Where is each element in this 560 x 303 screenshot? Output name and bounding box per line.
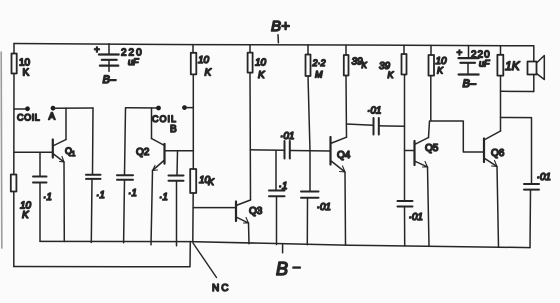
svg-text:K: K: [22, 210, 30, 221]
wire Q4 collector to C9: [347, 124, 374, 125]
wire Q3 emitter down: [248, 223, 251, 244]
svg-text:K: K: [388, 70, 395, 80]
wire Q6 emitter down: [497, 167, 499, 248]
svg-text:K: K: [205, 68, 213, 79]
wire Q1 collector riser: [65, 108, 67, 140]
svg-text:Q3: Q3: [249, 206, 263, 217]
transistor Q4: [331, 137, 351, 172]
svg-text:1K: 1K: [505, 59, 521, 73]
wire cap C5 drop: [176, 151, 179, 176]
capacitor C5 .1: [159, 176, 184, 246]
resistor R3 10K (on Q3 base line, top): [191, 45, 213, 79]
wire coil B dot2 stub: [185, 107, 194, 109]
svg-text:10: 10: [198, 55, 210, 66]
capacitor C1 .1: [33, 177, 52, 242]
wire Q5 base line vertical: [404, 75, 406, 201]
wire COIL B left branch: [125, 108, 159, 175]
svg-text:K: K: [23, 68, 30, 79]
capacitor C7 .1: [269, 181, 287, 245]
transistor Q2 (mirrored): [136, 139, 165, 171]
wire speaker bottom return: [501, 90, 534, 92]
svg-text:1: 1: [72, 151, 76, 158]
wire Q2 base to right: [165, 150, 194, 152]
transistor Q3: [236, 200, 263, 223]
wire Q5 collector to Q6 base: [431, 121, 484, 152]
svg-text:·1: ·1: [96, 190, 105, 201]
node COIL B dot 2: [182, 105, 187, 110]
capacitor C4 .1: [117, 175, 137, 243]
capacitor C8 .01: [301, 192, 331, 245]
svg-text:NC: NC: [212, 283, 230, 294]
resistor R4 10K (Q3 collector load): [248, 45, 267, 81]
wire Q3 collector to C6: [251, 149, 284, 152]
resistor R8 10K (Q5 collector load): [429, 45, 448, 75]
wire Q2 collector riser: [151, 108, 153, 139]
scan edge artifact: [0, 52, 3, 248]
capacitor C11 220uF (right): [457, 46, 491, 91]
node COIL B dot 1: [156, 106, 161, 111]
svg-text:·1: ·1: [128, 188, 137, 199]
svg-text:·01: ·01: [280, 131, 294, 142]
wire Q4 emitter down: [344, 172, 347, 245]
svg-text:K: K: [362, 61, 368, 70]
node coil A terminal stub: [14, 108, 26, 110]
capacitor C3 220uF (filter, top): [94, 44, 144, 86]
wire top rail B+: [14, 44, 534, 46]
svg-text:10: 10: [255, 58, 267, 69]
capacitor C6 .01 coupling: [280, 131, 294, 159]
wire C6 to Q4 base: [291, 150, 331, 153]
wire cap C1 drop: [39, 152, 41, 176]
transistor Q6: [484, 131, 505, 167]
svg-text:uF: uF: [128, 57, 139, 67]
capacitor C9 .01 coupling: [367, 106, 381, 135]
wire Q3 base line lower: [192, 193, 194, 242]
wire R8 down to corner: [430, 76, 432, 121]
svg-text:B–: B–: [463, 78, 477, 90]
svg-text:·01: ·01: [367, 106, 381, 117]
resistor R7 39K: [379, 45, 407, 80]
wire Q6 collector to right cap: [501, 118, 532, 184]
svg-text:Q2: Q2: [136, 147, 150, 158]
wire coil A to cap C2: [92, 108, 95, 175]
capacitor C2 .1: [86, 175, 105, 243]
svg-text:A: A: [49, 112, 56, 123]
svg-text:·1: ·1: [279, 181, 288, 192]
svg-text:Q6: Q6: [491, 148, 505, 159]
svg-text:·01: ·01: [409, 212, 423, 223]
resistor R2 10K (lower left, on left rail): [11, 175, 32, 222]
svg-text:2·2: 2·2: [312, 58, 326, 68]
wire Q4 collector line: [345, 76, 348, 138]
svg-text:·1: ·1: [43, 192, 52, 203]
resistor R6 39K (Q4 collector load): [344, 45, 368, 76]
svg-text:–: –: [293, 259, 301, 274]
wire R9 down to Q6 collector: [500, 76, 502, 131]
wire bottom-left loop: [14, 242, 191, 267]
svg-text:Q4: Q4: [337, 150, 351, 161]
svg-text:K: K: [437, 66, 444, 76]
wire 2.2M down to Q4 base node: [308, 76, 310, 191]
svg-text:Q5: Q5: [425, 143, 439, 154]
transistor Q1: [53, 140, 76, 163]
svg-text:·01: ·01: [317, 202, 331, 213]
wire Q1 emitter down: [63, 162, 65, 242]
resistor R10 10K (mid, above Q3 base): [190, 169, 215, 193]
label B- bottom: [282, 245, 284, 253]
label NC with leader: [193, 243, 217, 278]
wire ground bus B-: [40, 241, 530, 247]
svg-text:uF: uF: [479, 59, 490, 69]
transistor Q5: [415, 138, 439, 168]
speaker SP1: [528, 46, 545, 92]
wire Q5 collector riser: [429, 121, 430, 138]
node COIL A dot 2: [51, 106, 56, 111]
svg-text:COIL: COIL: [152, 114, 177, 124]
wire C9 to Q5 base line: [380, 125, 405, 127]
wire Q2 emitter down: [151, 171, 153, 245]
resistor R9 1K: [497, 46, 520, 76]
svg-text:K: K: [208, 177, 215, 187]
svg-text:B: B: [276, 259, 288, 279]
svg-text:B: B: [170, 124, 177, 135]
capacitor C10 .01: [398, 201, 423, 246]
svg-text:B–: B–: [103, 74, 117, 86]
wire Q3 base line vertical: [192, 74, 194, 169]
resistor R5 2.2M: [306, 45, 326, 80]
wire coil A node: [53, 107, 93, 109]
svg-text:·1: ·1: [159, 192, 168, 203]
wire B+ stub: [277, 35, 279, 43]
svg-text:M: M: [315, 70, 323, 80]
wire left rail: [13, 44, 15, 267]
resistor R1 10K (top left, on left rail): [12, 54, 31, 79]
wire cap C7 drop: [275, 150, 277, 190]
svg-text:B+: B+: [271, 18, 290, 35]
svg-text:·01: ·01: [537, 172, 551, 183]
svg-text:+: +: [457, 48, 463, 59]
wire Q3 collector line: [249, 73, 252, 200]
wire Q5 base tap: [405, 150, 415, 152]
node COIL A dot 1: [25, 106, 30, 111]
svg-text:K: K: [258, 70, 266, 81]
wire Q1 base from rail: [14, 151, 53, 153]
svg-text:+: +: [94, 45, 100, 56]
svg-text:COIL: COIL: [17, 113, 40, 123]
wire Q5 emitter down: [428, 167, 430, 246]
capacitor C12 .01 (right): [524, 172, 551, 248]
wire Q3 base horizontal: [193, 207, 236, 209]
